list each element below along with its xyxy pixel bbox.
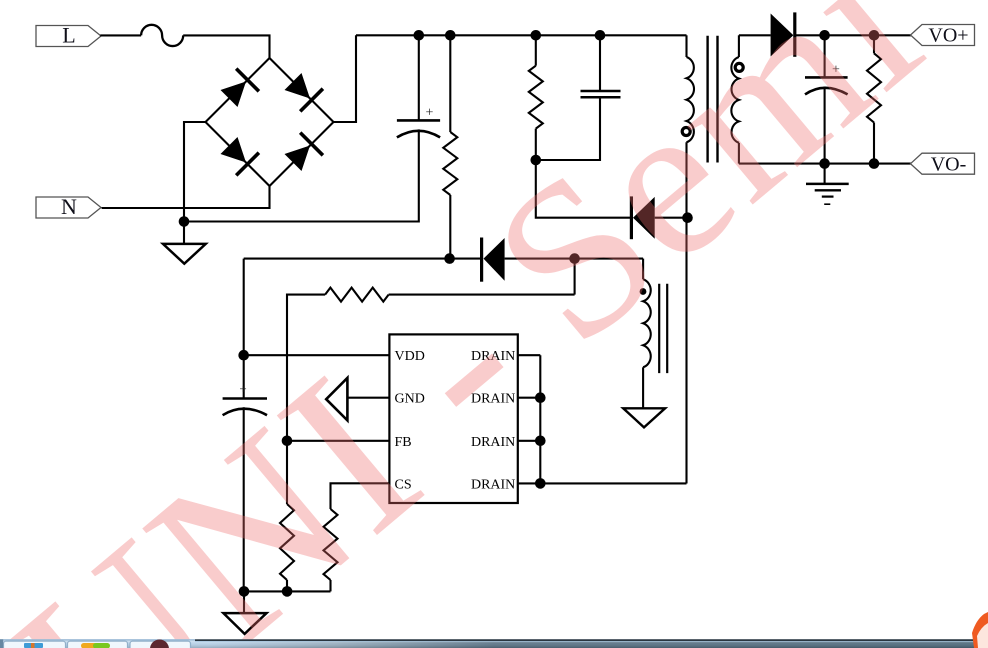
aux phase dot xyxy=(640,288,647,295)
bridge diode D4 (bottom to right) xyxy=(285,146,311,172)
op IC U1 body xyxy=(389,334,517,503)
wire aux node down to FB resistor xyxy=(574,259,576,295)
node FB junction xyxy=(282,436,293,447)
diode D7 VDD rectifier xyxy=(484,238,505,281)
node primary bottom xyxy=(682,212,693,223)
pin VDD stub xyxy=(244,354,390,356)
terminal VO+ xyxy=(911,25,975,46)
ground (secondary earth) xyxy=(806,183,849,186)
wire output cap bottom xyxy=(824,87,826,164)
node clamp RC junction xyxy=(531,155,542,166)
wire startup resistor to VDD diode node xyxy=(449,195,451,259)
terminal L xyxy=(36,26,101,47)
wire top bus xyxy=(356,34,687,36)
bridge diode D3 (left to bottom) xyxy=(221,137,247,163)
wire FB resistor to rail xyxy=(286,580,288,591)
notification icon xyxy=(972,612,988,648)
wire output cap top xyxy=(824,35,826,77)
wire bus to startup resistor xyxy=(449,35,451,132)
wire bus to clamp resistor xyxy=(535,35,537,65)
node load resistor top xyxy=(869,30,880,41)
fuse F1 xyxy=(141,25,183,46)
GND arrow xyxy=(326,378,347,421)
primary phase dot xyxy=(682,128,690,136)
wire VDD cap to bottom rail xyxy=(243,407,245,591)
terminal N xyxy=(36,197,101,218)
node output cap minus xyxy=(819,158,830,169)
taskbar button 1 xyxy=(4,641,66,648)
svg-text:VO-: VO- xyxy=(931,153,967,175)
capacitor C2 clamp xyxy=(581,90,621,93)
wire to secondary ground xyxy=(824,164,826,184)
wire rail to IC ground xyxy=(243,591,245,613)
node drain 2 xyxy=(535,392,546,403)
svg-text:VO+: VO+ xyxy=(928,25,968,47)
wire bus to clamp capacitor xyxy=(599,35,601,91)
wire bottom rail xyxy=(244,590,331,592)
wire clamp diode to primary bottom xyxy=(655,217,688,219)
wire VO- rail xyxy=(739,163,911,165)
wire clamp resistor to clamp node xyxy=(535,129,537,160)
ground (aux) xyxy=(623,408,665,427)
wire drain horizontal xyxy=(540,482,686,484)
wire clamp node to clamp diode xyxy=(536,160,630,218)
resistor R4 feedback upper xyxy=(325,288,389,302)
capacitor C1 bulk electrolytic xyxy=(397,119,440,122)
node VDD startup junction xyxy=(444,253,455,264)
bridge diode D1 (left to top) xyxy=(221,82,247,108)
wire aux to ground xyxy=(642,367,644,408)
node bottom rail left xyxy=(239,586,250,597)
node drain 4 xyxy=(535,478,546,489)
transformer T1 primary winding xyxy=(685,35,687,57)
bridge rectifier frame xyxy=(206,58,334,186)
pin CS stub xyxy=(331,483,390,509)
resistor R2 clamp xyxy=(529,66,543,129)
wire VDD rail horizontal xyxy=(244,258,481,260)
capacitor C3 output electrolytic xyxy=(805,76,848,79)
node bulk cap xyxy=(414,30,425,41)
wire drain bus xyxy=(539,355,541,483)
svg-text:L: L xyxy=(62,23,75,48)
wire bridge plus to top bus xyxy=(334,35,357,122)
node clamp R xyxy=(531,30,542,41)
diode D5 clamp xyxy=(633,197,655,239)
node aux feedback junction xyxy=(569,253,580,264)
node VDD pin junction xyxy=(238,350,249,361)
wire N to bridge AC bottom xyxy=(102,186,270,208)
taskbar button 2 xyxy=(68,641,128,648)
resistor R6 current sense xyxy=(324,509,338,580)
capacitor C4 VDD xyxy=(223,397,267,400)
ground (IC) xyxy=(223,613,266,634)
node clamp C xyxy=(595,30,606,41)
svg-text:+: + xyxy=(426,106,434,121)
wire primary bottom to drain xyxy=(685,142,687,483)
wire aux top xyxy=(642,259,644,280)
bridge diode D2 (top to right) xyxy=(285,73,311,99)
wire CS resistor to rail xyxy=(329,580,331,591)
wire clamp capacitor to clamp node xyxy=(536,97,600,160)
wire bridge minus to ground node xyxy=(184,122,206,244)
node output cap plus xyxy=(819,30,830,41)
wire L to fuse xyxy=(100,34,141,36)
wire VDD rail vertical xyxy=(243,259,245,399)
node startup resistor xyxy=(445,30,456,41)
pin DRAIN stubs xyxy=(518,354,541,356)
svg-text:N: N xyxy=(61,194,77,219)
node load resistor bottom xyxy=(869,158,880,169)
transformer core xyxy=(706,36,708,163)
node drain 3 xyxy=(535,436,546,447)
wire fuse to bridge AC top xyxy=(183,35,269,58)
pin GND stub xyxy=(347,397,389,399)
aux core xyxy=(658,284,660,373)
wire FB upper right xyxy=(389,294,575,296)
pin FB stub xyxy=(287,440,389,442)
node bottom rail mid xyxy=(282,586,293,597)
wire bus to bulk cap xyxy=(418,35,420,120)
node AC ground junction xyxy=(179,216,190,227)
diode D6 output rectifier xyxy=(771,14,794,57)
wire FB upper left xyxy=(287,295,325,504)
wire DC minus rail xyxy=(184,129,419,221)
secondary phase dot xyxy=(735,63,743,71)
transformer T1 secondary winding xyxy=(738,35,740,57)
winding auxiliary xyxy=(643,279,651,367)
wire output diode to VO+ xyxy=(795,34,911,36)
wire secondary top to output diode xyxy=(739,34,771,36)
resistor R5 feedback lower xyxy=(280,504,294,580)
resistor R1 startup xyxy=(443,132,457,195)
ground (input) xyxy=(163,244,206,264)
taskbar button 3 xyxy=(130,641,191,648)
resistor R3 load xyxy=(873,35,875,53)
terminal VO- xyxy=(911,153,975,174)
wire VDD diode anode to aux xyxy=(505,258,643,260)
